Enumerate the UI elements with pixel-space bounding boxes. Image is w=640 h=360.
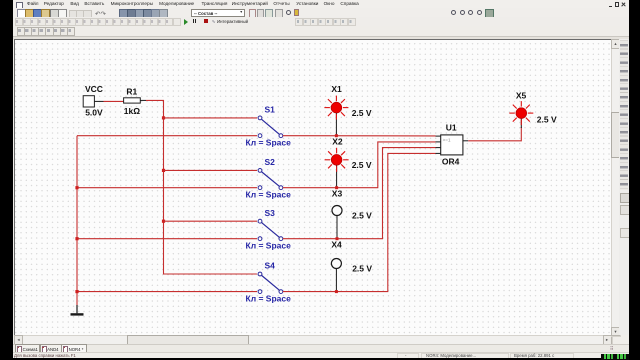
node junction bus-left S2 bbox=[75, 186, 78, 189]
svg-text:X4: X4 bbox=[331, 240, 342, 250]
svg-text:VCC: VCC bbox=[85, 84, 103, 94]
wire S3 top feed bbox=[164, 220, 258, 222]
wire middle bus vertical bbox=[164, 118, 257, 274]
green level meter bottom right bbox=[601, 354, 629, 360]
wire S2 output to gate in2 bbox=[283, 142, 436, 188]
svg-text:2.5 V: 2.5 V bbox=[352, 108, 372, 118]
wire S2 bottom to bus bbox=[77, 187, 257, 189]
wire S3 output to gate in3 bbox=[283, 148, 436, 239]
switch S2 bbox=[246, 157, 292, 200]
window buttons bbox=[609, 3, 612, 7]
node junction probe X3 bbox=[336, 237, 339, 240]
svg-text:2.5 V: 2.5 V bbox=[352, 211, 372, 221]
probe X5 bbox=[509, 90, 557, 128]
svg-text:2.5 V: 2.5 V bbox=[352, 160, 372, 170]
svg-text:S4: S4 bbox=[265, 260, 276, 270]
wire S2 top feed bbox=[164, 169, 258, 171]
svg-text:Кл = Space: Кл = Space bbox=[246, 190, 292, 200]
svg-text:X5: X5 bbox=[516, 90, 527, 100]
svg-text:S2: S2 bbox=[265, 157, 276, 167]
play/pause/stop bbox=[184, 19, 188, 25]
node junction bus S1 bbox=[162, 116, 165, 119]
svg-text:R1: R1 bbox=[126, 86, 137, 96]
node junction bus S3 bbox=[162, 220, 165, 223]
node junction bus-left S3 bbox=[75, 237, 78, 240]
dropdown bbox=[191, 9, 245, 17]
svg-text:2.5 V: 2.5 V bbox=[352, 263, 372, 273]
svg-text:OR4: OR4 bbox=[442, 156, 460, 166]
node junction probe X4 bbox=[335, 290, 338, 293]
svg-text:Кл = Space: Кл = Space bbox=[246, 293, 292, 303]
svg-text:>=1: >=1 bbox=[443, 138, 451, 143]
or gate U1 bbox=[436, 123, 469, 167]
probe X4 bbox=[331, 240, 372, 292]
svg-text:1kΩ: 1kΩ bbox=[124, 106, 140, 116]
svg-text:Кл = Space: Кл = Space bbox=[246, 241, 292, 251]
wire S4 bottom to bus bbox=[77, 291, 257, 293]
switch S4 bbox=[246, 260, 292, 303]
svg-text:X3: X3 bbox=[332, 188, 343, 198]
resistor R1 bbox=[124, 86, 146, 115]
wire S4 output to gate in4 bbox=[283, 153, 436, 291]
svg-text:2.5 V: 2.5 V bbox=[537, 114, 557, 124]
wire S1 bottom to bus bbox=[77, 135, 257, 137]
switch S1 bbox=[246, 104, 292, 147]
node junction probe X2 bbox=[335, 186, 338, 189]
node junction bus S2 bbox=[162, 169, 165, 172]
svg-text:X1: X1 bbox=[331, 84, 342, 94]
wire gate output to X5 bbox=[468, 127, 521, 141]
svg-text:U1: U1 bbox=[446, 123, 457, 133]
zoom icon group bbox=[451, 10, 456, 15]
svg-text:S1: S1 bbox=[265, 104, 276, 114]
switch S3 bbox=[246, 208, 292, 251]
ground bbox=[71, 305, 84, 316]
wire VCC to R1 bbox=[104, 100, 124, 102]
node junction probe X1 bbox=[335, 134, 338, 137]
svg-text:5.0V: 5.0V bbox=[85, 108, 103, 118]
svg-text:Кл = Space: Кл = Space bbox=[246, 138, 292, 148]
probe X2 bbox=[325, 136, 372, 187]
probe X1 bbox=[324, 84, 371, 136]
wire S3 bottom to bus bbox=[77, 238, 257, 240]
wire S1 top feed bbox=[164, 117, 258, 119]
svg-text:X2: X2 bbox=[332, 136, 343, 146]
wire R1 to bus corner bbox=[146, 100, 164, 118]
black frame edges bbox=[0, 0, 13, 360]
svg-text:S3: S3 bbox=[265, 208, 276, 218]
power source VCC bbox=[83, 84, 103, 117]
probe X3 bbox=[332, 188, 372, 238]
wire S1 output to gate in1 bbox=[283, 135, 436, 137]
node junction bus-left S4 bbox=[75, 290, 78, 293]
right icon group row2 bbox=[295, 18, 303, 26]
wire left ground bus bbox=[76, 136, 78, 305]
